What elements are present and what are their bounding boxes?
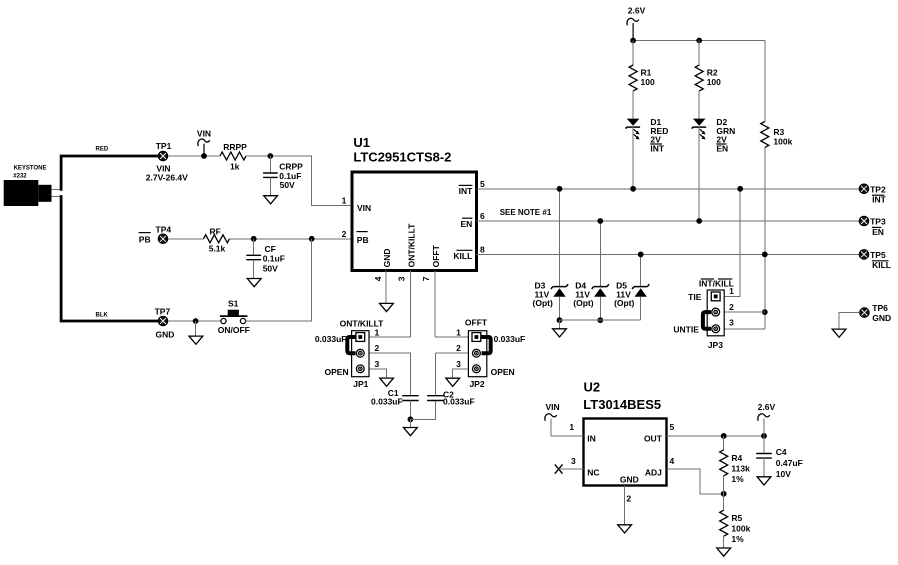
svg-text:7: 7: [421, 276, 431, 281]
svg-text:TP7: TP7: [155, 306, 171, 316]
svg-text:LTC2951CTS8-2: LTC2951CTS8-2: [353, 150, 451, 165]
svg-text:TP5: TP5: [870, 250, 886, 260]
svg-text:(Opt): (Opt): [573, 298, 593, 308]
svg-text:JP2: JP2: [469, 379, 484, 389]
svg-text:R4: R4: [731, 453, 742, 463]
svg-text:50V: 50V: [280, 180, 295, 190]
svg-text:0.1uF: 0.1uF: [263, 254, 285, 264]
svg-text:0.033uF: 0.033uF: [494, 334, 526, 344]
svg-text:50V: 50V: [263, 264, 278, 274]
svg-text:1: 1: [342, 195, 347, 205]
svg-text:100: 100: [641, 77, 655, 87]
svg-text:2: 2: [342, 229, 347, 239]
svg-text:2: 2: [375, 343, 380, 353]
svg-text:8: 8: [480, 245, 485, 255]
svg-text:KEYSTONE: KEYSTONE: [14, 166, 47, 172]
svg-text:JP1: JP1: [353, 379, 368, 389]
svg-text:CRPP: CRPP: [279, 162, 303, 172]
svg-text:EN: EN: [716, 144, 728, 154]
svg-text:1%: 1%: [731, 474, 744, 484]
svg-text:5.1k: 5.1k: [209, 244, 226, 254]
svg-text:UNTIE: UNTIE: [673, 324, 699, 334]
svg-text:100k: 100k: [773, 137, 792, 147]
svg-text:1%: 1%: [731, 534, 744, 544]
svg-text:3: 3: [571, 456, 576, 466]
svg-text:113k: 113k: [731, 464, 750, 474]
svg-text:VIN: VIN: [546, 402, 560, 412]
svg-text:OUT: OUT: [644, 434, 663, 444]
svg-text:4: 4: [373, 276, 383, 281]
svg-text:OPEN: OPEN: [491, 367, 515, 377]
svg-text:(Opt): (Opt): [533, 298, 553, 308]
svg-text:2: 2: [729, 302, 734, 312]
svg-text:RED: RED: [96, 146, 109, 152]
svg-text:3: 3: [396, 276, 406, 281]
svg-text:ON/OFF: ON/OFF: [218, 325, 250, 335]
svg-text:RF: RF: [210, 226, 221, 236]
svg-text:OFFT: OFFT: [431, 244, 441, 267]
svg-text:U2: U2: [584, 380, 601, 395]
svg-text:PB: PB: [139, 235, 151, 245]
svg-text:3: 3: [375, 359, 380, 369]
svg-text:GND: GND: [620, 475, 639, 485]
svg-text:PB: PB: [357, 235, 369, 245]
svg-text:2.6V: 2.6V: [758, 402, 776, 412]
svg-text:1: 1: [456, 328, 461, 338]
svg-text:GND: GND: [872, 313, 891, 323]
svg-text:TP6: TP6: [872, 303, 888, 313]
svg-text:2: 2: [626, 494, 631, 504]
svg-text:2.7V-26.4V: 2.7V-26.4V: [146, 172, 188, 182]
svg-text:TP3: TP3: [870, 217, 886, 227]
svg-text:3: 3: [729, 317, 734, 327]
svg-text:0.033uF: 0.033uF: [443, 397, 475, 407]
svg-text:#232: #232: [13, 174, 27, 180]
svg-text:GND: GND: [382, 249, 392, 268]
svg-text:TP2: TP2: [870, 185, 886, 195]
svg-text:1: 1: [375, 328, 380, 338]
svg-text:JP3: JP3: [708, 340, 723, 350]
svg-text:2: 2: [456, 343, 461, 353]
svg-text:100: 100: [707, 77, 721, 87]
svg-text:5: 5: [480, 179, 485, 189]
svg-text:10V: 10V: [776, 469, 791, 479]
svg-text:OFFT: OFFT: [465, 318, 488, 328]
svg-text:TIE: TIE: [688, 292, 702, 302]
svg-text:GND: GND: [155, 330, 174, 340]
svg-text:INT/KILL: INT/KILL: [699, 279, 734, 289]
svg-text:INT: INT: [650, 144, 665, 154]
svg-text:0.033uF: 0.033uF: [315, 334, 347, 344]
svg-text:R5: R5: [731, 513, 742, 523]
svg-text:5: 5: [670, 422, 675, 432]
svg-text:ONT/KILLT: ONT/KILLT: [406, 223, 416, 268]
svg-text:INT: INT: [459, 186, 474, 196]
svg-text:VIN: VIN: [197, 129, 211, 139]
svg-text:1: 1: [569, 422, 574, 432]
svg-text:INT: INT: [872, 195, 887, 205]
svg-text:2.6V: 2.6V: [628, 6, 646, 16]
svg-text:SEE NOTE #1: SEE NOTE #1: [500, 208, 552, 217]
svg-text:LT3014BES5: LT3014BES5: [583, 397, 661, 412]
svg-text:0.47uF: 0.47uF: [776, 458, 803, 468]
svg-text:C4: C4: [776, 447, 787, 457]
svg-text:ADJ: ADJ: [645, 468, 662, 478]
svg-text:U1: U1: [353, 135, 370, 150]
svg-text:S1: S1: [228, 298, 239, 308]
svg-text:100k: 100k: [731, 524, 750, 534]
svg-text:KILL: KILL: [453, 251, 472, 261]
svg-text:KILL: KILL: [872, 260, 891, 270]
svg-text:4: 4: [670, 456, 675, 466]
svg-text:6: 6: [480, 211, 485, 221]
svg-text:0.033uF: 0.033uF: [371, 397, 403, 407]
svg-text:3: 3: [456, 359, 461, 369]
svg-text:(Opt): (Opt): [614, 298, 634, 308]
svg-text:RRPP: RRPP: [223, 142, 247, 152]
svg-text:TP4: TP4: [156, 224, 172, 234]
svg-text:EN: EN: [460, 219, 472, 229]
svg-text:IN: IN: [587, 434, 596, 444]
svg-text:BLK: BLK: [96, 313, 109, 319]
svg-text:OPEN: OPEN: [325, 367, 349, 377]
svg-text:VIN: VIN: [357, 203, 371, 213]
svg-text:CF: CF: [265, 244, 276, 254]
svg-text:EN: EN: [872, 227, 884, 237]
svg-text:TP1: TP1: [156, 141, 172, 151]
svg-text:NC: NC: [587, 468, 599, 478]
svg-text:ONT/KILLT: ONT/KILLT: [340, 319, 385, 329]
svg-text:1k: 1k: [230, 162, 240, 172]
